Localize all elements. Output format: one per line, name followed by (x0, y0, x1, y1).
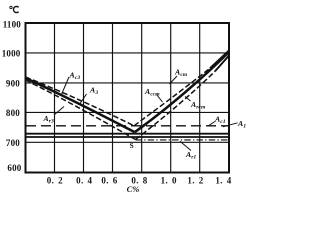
grid horizontal 1000C (26, 52, 230, 54)
svg-text:900: 900 (6, 79, 20, 89)
grid horizontal 700C (26, 141, 230, 143)
x tick labels (47, 176, 232, 186)
curve Accm (dashed, rising) (134, 68, 210, 126)
leader for Acm label (170, 76, 178, 84)
y tick labels (2, 19, 22, 173)
svg-text:1000: 1000 (2, 49, 21, 59)
leader for Accm label (157, 95, 163, 103)
curve Ar3 (dashed, descending) (26, 80, 136, 140)
leader for A3 label (79, 94, 87, 105)
grid vertical 0.6 (112, 23, 114, 173)
grid horizontal 800C (26, 111, 230, 113)
curve Ar1 (solid horizontal, lower rule of eutectoid band) (26, 136, 229, 138)
leader for Arcm label (185, 97, 191, 102)
svg-text:1. 4: 1. 4 (215, 176, 231, 186)
curve Arcm merge stroke into corner (215, 56, 229, 72)
grid vertical 1.0 (170, 23, 172, 173)
leader for Ar3 label (54, 107, 64, 116)
plot frame (26, 23, 230, 173)
grid vertical 0.2 (54, 23, 56, 173)
svg-text:600: 600 (7, 163, 21, 173)
grid vertical 1.2 (199, 23, 201, 173)
curve A1 (solid horizontal, equilibrium eutectoid line) (26, 133, 229, 135)
grid vertical 0.4 (83, 23, 85, 173)
grid vertical 0.8 (141, 23, 143, 173)
svg-text:700: 700 (6, 138, 20, 148)
leader for Ac1 label (208, 122, 215, 127)
curve Ac3 (dashed, descending) (26, 77, 135, 126)
svg-text:C%: C% (127, 184, 140, 192)
curve A3 (solid, descending GS line) (26, 78, 135, 132)
curve Ac1 (dashed horizontal, heating eutectoid line) (26, 125, 229, 127)
leader for Ac3 label (61, 77, 69, 96)
curve Ar1 (dash-dot cooling line right of vertex) (136, 139, 229, 141)
svg-text:0. 6: 0. 6 (101, 176, 117, 186)
svg-text:S: S (130, 141, 134, 150)
svg-text:800: 800 (6, 108, 20, 118)
svg-text:℃: ℃ (9, 5, 20, 16)
svg-text:1. 2: 1. 2 (187, 176, 203, 186)
svg-text:0. 2: 0. 2 (47, 176, 63, 186)
curve labels (43, 68, 247, 161)
svg-text:1. 0: 1. 0 (161, 176, 177, 186)
svg-text:0. 4: 0. 4 (76, 176, 92, 186)
curve Arcm (dashed, rising) (136, 71, 216, 139)
leader for A1 label (223, 123, 238, 127)
svg-text:1100: 1100 (3, 19, 22, 29)
grid horizontal 900C (26, 82, 230, 84)
curve Acm (solid, rising ES line) (135, 52, 229, 132)
curve Accm merge stroke into corner (210, 51, 229, 69)
leader for Ar1 label (180, 141, 191, 150)
